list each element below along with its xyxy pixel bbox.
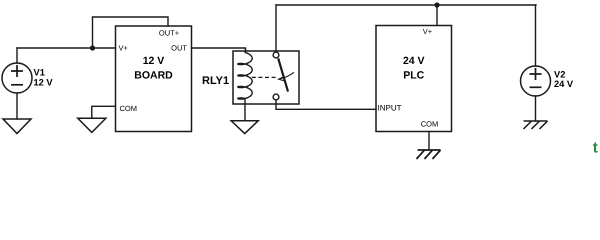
- wire V1 bottom: [16, 93, 18, 119]
- relay actuation dashed link: [252, 76, 277, 78]
- svg-text:V2: V2: [554, 70, 565, 80]
- node junction V+/OUT+: [90, 45, 95, 50]
- wire board COM to ground: [92, 106, 116, 118]
- svg-text:COM: COM: [120, 104, 138, 113]
- svg-text:12 V: 12 V: [143, 55, 165, 67]
- wire V2 top drop: [535, 5, 537, 66]
- relay actuation arrow: [280, 72, 294, 79]
- node junction top rail / PLC V+: [434, 2, 439, 7]
- wire switch to PLC INPUT: [276, 100, 376, 109]
- chassis ground below PLC COM: [417, 150, 441, 159]
- svg-text:OUT: OUT: [171, 43, 187, 52]
- svg-text:OUT+: OUT+: [159, 29, 180, 38]
- svg-text:24 V: 24 V: [554, 79, 574, 89]
- wire OUT to relay coil: [192, 48, 246, 52]
- relay switch top contact: [273, 52, 279, 58]
- ground below relay coil: [231, 121, 258, 134]
- wire OUT+ loop: [93, 17, 169, 48]
- svg-text:COM: COM: [421, 120, 439, 129]
- wire top rail: [276, 4, 536, 6]
- svg-text:V+: V+: [423, 27, 433, 36]
- chassis ground below V2: [524, 121, 548, 129]
- wire switch top drop: [275, 5, 277, 52]
- wire V2 bottom: [535, 96, 537, 121]
- relay coil: [238, 48, 252, 99]
- wire PLC COM drop: [428, 132, 430, 151]
- wire PLC V+ drop: [436, 5, 438, 26]
- relay switch bottom contact: [273, 94, 279, 100]
- svg-text:24 V: 24 V: [403, 55, 425, 67]
- svg-text:t: t: [593, 140, 598, 157]
- voltage source V1: [2, 63, 32, 93]
- voltage source V2: [521, 66, 551, 96]
- svg-text:RLY1: RLY1: [202, 75, 229, 87]
- wire V1 top stub: [16, 48, 18, 63]
- relay RLY1 box: [233, 51, 299, 104]
- wire coil to ground: [244, 99, 246, 121]
- PLC box: [376, 26, 452, 132]
- svg-text:V1: V1: [34, 68, 45, 78]
- ground below board COM: [78, 118, 106, 132]
- ground below V1: [3, 119, 31, 134]
- svg-text:BOARD: BOARD: [134, 70, 173, 82]
- board U1 12V BOARD: [116, 26, 192, 132]
- svg-text:12 V: 12 V: [34, 77, 54, 87]
- relay switch blade: [278, 58, 288, 91]
- wire V1 to board V+: [17, 47, 116, 49]
- svg-text:V+: V+: [119, 44, 129, 53]
- svg-text:INPUT: INPUT: [378, 104, 402, 113]
- svg-text:PLC: PLC: [403, 70, 424, 82]
